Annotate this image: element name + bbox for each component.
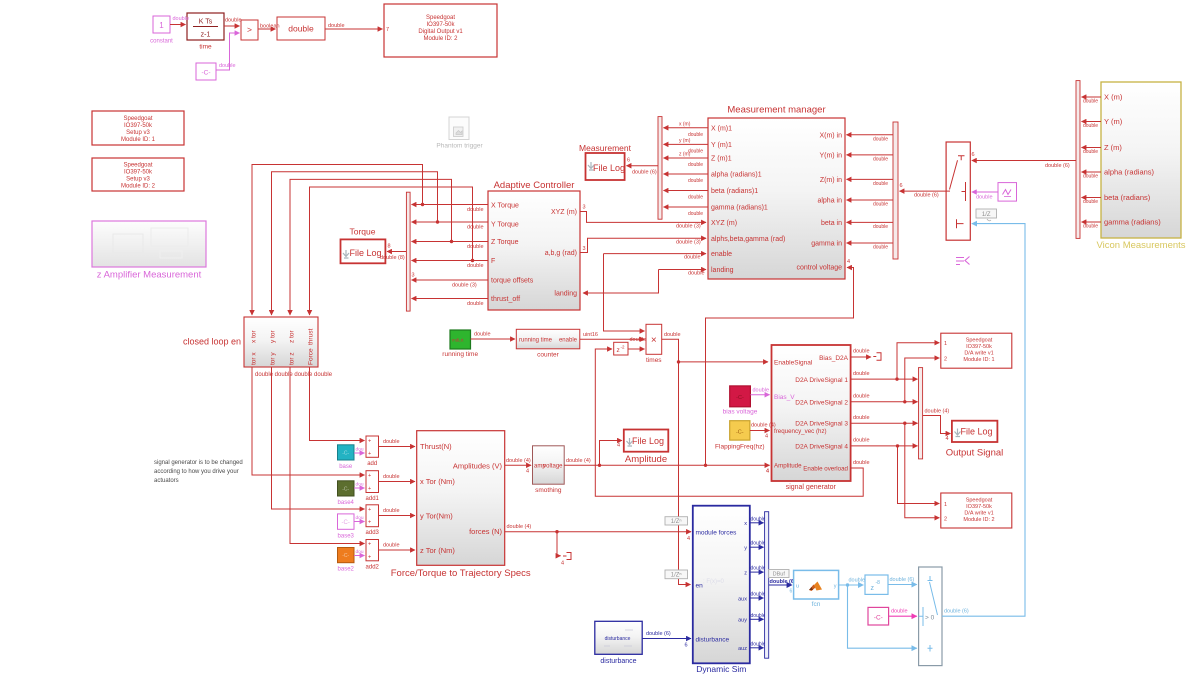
svg-text:add2: add2	[366, 564, 380, 570]
svg-text:z-1: z-1	[201, 32, 211, 39]
svg-text:double: double	[467, 244, 484, 250]
svg-text:double: double	[1083, 174, 1098, 180]
svg-text:z: z	[871, 585, 875, 592]
svg-text:Z(m) in: Z(m) in	[820, 177, 842, 184]
svg-text:control voltage: control voltage	[796, 264, 842, 271]
svg-text:y tor: y tor	[270, 330, 277, 343]
svg-text:double: double	[630, 337, 647, 343]
svg-text:Y(m) in: Y(m) in	[819, 152, 842, 159]
svg-text:auy: auy	[738, 618, 747, 624]
svg-text:frequency_vec (hz): frequency_vec (hz)	[774, 428, 827, 435]
svg-text:+: +	[368, 542, 371, 548]
svg-text:double: double	[1083, 149, 1098, 155]
svg-text:X Torque: X Torque	[491, 203, 519, 210]
svg-text:voltage: voltage	[543, 463, 563, 469]
svg-text:D/A write v1: D/A write v1	[964, 511, 993, 517]
svg-text:double: double	[751, 516, 766, 522]
svg-text:Z (m): Z (m)	[1104, 143, 1122, 152]
svg-text:double: double	[467, 207, 484, 213]
svg-text:double: double	[474, 332, 491, 338]
svg-text:double: double	[873, 202, 888, 208]
svg-text:6: 6	[972, 152, 975, 158]
svg-text:4: 4	[766, 469, 769, 475]
svg-text:double: double	[853, 394, 870, 400]
svg-text:File Log: File Log	[593, 163, 625, 173]
svg-text:double: double	[173, 16, 190, 22]
svg-text:Module ID: 2: Module ID: 2	[963, 517, 994, 523]
svg-text:Amplitudes (V): Amplitudes (V)	[453, 461, 503, 470]
svg-text:double: double	[976, 194, 993, 200]
svg-text:D2A DriveSignal 3: D2A DriveSignal 3	[795, 421, 848, 428]
svg-text:Z Torque: Z Torque	[491, 239, 519, 246]
svg-text:boolean: boolean	[260, 24, 280, 30]
svg-text:Speedgoat: Speedgoat	[123, 163, 152, 169]
svg-text:double: double	[383, 508, 400, 514]
svg-text:Force/Torque to Trajectory Spe: Force/Torque to Trajectory Specs	[391, 568, 531, 579]
svg-text:2: 2	[944, 357, 947, 363]
svg-text:Adaptive Controller: Adaptive Controller	[494, 180, 575, 191]
svg-text:landing: landing	[711, 267, 734, 274]
svg-text:aux: aux	[738, 596, 747, 602]
svg-text:Module ID: 1: Module ID: 1	[963, 357, 994, 363]
svg-text:1/Zⁿ: 1/Zⁿ	[671, 571, 682, 578]
svg-text:dou: dou	[356, 549, 364, 555]
svg-text:XYZ (m): XYZ (m)	[711, 220, 737, 227]
svg-text:File Log: File Log	[960, 427, 992, 437]
svg-text:double: double	[688, 132, 703, 138]
svg-text:double: double	[688, 178, 703, 184]
svg-text:Speedgoat: Speedgoat	[426, 15, 455, 21]
svg-text:Vicon Measurements: Vicon Measurements	[1096, 240, 1185, 251]
svg-text:1: 1	[944, 502, 947, 508]
svg-text:4: 4	[687, 536, 690, 542]
svg-text:-C-: -C-	[201, 70, 210, 77]
svg-text:6: 6	[900, 183, 903, 189]
svg-text:4: 4	[617, 443, 620, 449]
svg-text:double: double	[1083, 224, 1098, 230]
svg-text:3: 3	[583, 246, 586, 252]
svg-text:uint16: uint16	[583, 332, 598, 338]
svg-text:double: double	[328, 23, 345, 29]
svg-text:double: double	[751, 541, 766, 547]
svg-text:double: double	[853, 460, 870, 466]
svg-text:4: 4	[847, 259, 850, 265]
svg-text:Y Torque: Y Torque	[491, 222, 519, 229]
svg-text:disturbance: disturbance	[600, 658, 636, 665]
svg-text:enable: enable	[559, 338, 578, 344]
svg-text:Bias_V: Bias_V	[774, 394, 795, 401]
svg-text:double: double	[873, 245, 888, 251]
svg-text:XYZ (m): XYZ (m)	[551, 209, 577, 216]
svg-text:double: double	[467, 263, 484, 269]
svg-text:counter: counter	[537, 352, 560, 359]
svg-text:double (6): double (6)	[914, 193, 939, 199]
svg-text:-2: -2	[621, 345, 625, 350]
svg-text:double: double	[684, 255, 701, 261]
svg-text:z (m): z (m)	[679, 152, 691, 158]
svg-text:z Tor (Nm): z Tor (Nm)	[420, 546, 455, 555]
svg-text:Force: Force	[308, 348, 315, 365]
svg-text:running time: running time	[442, 351, 478, 358]
svg-text:Speedgoat: Speedgoat	[966, 498, 993, 504]
svg-text:z Amplifier Measurement: z Amplifier Measurement	[97, 270, 202, 281]
svg-text:Y (m): Y (m)	[1104, 117, 1123, 126]
svg-text:X (m): X (m)	[1104, 93, 1123, 102]
svg-text:D/A write v1: D/A write v1	[964, 351, 993, 357]
svg-text:; F(x)=0: ; F(x)=0	[703, 579, 724, 585]
svg-text:double: double	[383, 543, 400, 549]
svg-text:3: 3	[412, 273, 415, 279]
svg-text:alpha in: alpha in	[817, 198, 842, 205]
svg-text:+: +	[368, 486, 371, 492]
svg-text:+: +	[368, 555, 371, 561]
svg-text:Output Signal: Output Signal	[946, 448, 1004, 459]
svg-text:Measurement manager: Measurement manager	[727, 105, 825, 116]
svg-text:dou: dou	[356, 447, 364, 453]
svg-text:double (4): double (4)	[566, 458, 591, 464]
svg-text:thrust_off: thrust_off	[491, 296, 520, 303]
svg-text:fcn: fcn	[812, 601, 821, 608]
svg-text:thrust: thrust	[308, 329, 315, 345]
svg-text:double (4): double (4)	[751, 423, 776, 429]
svg-text:dou: dou	[356, 515, 364, 521]
svg-text:z tor: z tor	[288, 330, 295, 343]
svg-text:double (6): double (6)	[944, 609, 969, 615]
svg-text:gamma (radians): gamma (radians)	[1104, 218, 1161, 227]
svg-text:double: double	[873, 136, 888, 142]
svg-text:4: 4	[765, 434, 768, 440]
svg-text:according to how you drive you: according to how you drive your	[154, 469, 239, 475]
svg-text:-8: -8	[876, 580, 881, 586]
svg-text:enable: enable	[711, 251, 732, 258]
svg-text:double: double	[1083, 199, 1098, 205]
svg-text:gamma in: gamma in	[811, 241, 842, 248]
svg-text:double (6): double (6)	[646, 631, 671, 637]
svg-text:Dynamic Sim: Dynamic Sim	[696, 664, 746, 674]
svg-text:double (4): double (4)	[925, 409, 950, 415]
svg-text:disturbance: disturbance	[605, 636, 631, 642]
svg-text:Module ID: 2: Module ID: 2	[423, 36, 458, 42]
svg-text:double: double	[688, 271, 705, 277]
svg-text:y Tor(Nm): y Tor(Nm)	[420, 512, 453, 521]
svg-text:double (3): double (3)	[452, 283, 477, 289]
svg-text:double (6): double (6)	[770, 579, 796, 585]
svg-text:> 0: > 0	[925, 615, 935, 622]
svg-text:DBuf: DBuf	[773, 571, 786, 577]
svg-text:2: 2	[944, 517, 947, 523]
svg-text:Speedgoat: Speedgoat	[123, 116, 152, 122]
svg-text:disturbance: disturbance	[696, 637, 730, 644]
svg-text:Enable overload: Enable overload	[803, 466, 848, 473]
svg-text:double: double	[688, 162, 703, 168]
svg-text:double: double	[225, 18, 242, 24]
svg-text:D2A DriveSignal 1: D2A DriveSignal 1	[795, 377, 848, 384]
svg-text:landing: landing	[554, 291, 577, 298]
svg-text:y: y	[834, 584, 837, 590]
svg-text:double: double	[853, 415, 870, 421]
svg-text:u: u	[796, 584, 799, 590]
svg-text:x tor: x tor	[250, 330, 257, 343]
svg-text:double: double	[873, 156, 888, 162]
svg-text:IO397-50k: IO397-50k	[966, 344, 992, 350]
svg-text:Measurement: Measurement	[579, 143, 632, 153]
svg-text:Digital Output v1: Digital Output v1	[418, 29, 463, 35]
svg-text:alpha (radians)1: alpha (radians)1	[711, 172, 762, 179]
svg-text:double (8): double (8)	[380, 255, 405, 261]
svg-text:IO397-50k: IO397-50k	[966, 504, 992, 510]
svg-text:base3: base3	[338, 533, 355, 539]
svg-text:double (6): double (6)	[890, 577, 915, 583]
svg-text:-C-: -C-	[342, 486, 349, 492]
svg-text:>: >	[247, 25, 252, 35]
svg-text:y (m): y (m)	[679, 138, 691, 144]
svg-text:7: 7	[386, 27, 389, 33]
svg-text:double: double	[467, 301, 484, 307]
svg-text:-C-: -C-	[342, 450, 349, 456]
svg-text:signal generator: signal generator	[786, 484, 837, 491]
svg-text:IO397-50k: IO397-50k	[124, 123, 153, 129]
svg-text:+: +	[368, 451, 371, 457]
svg-text:1/Z: 1/Z	[982, 212, 991, 218]
svg-text:Setup v3: Setup v3	[126, 130, 150, 136]
svg-text:1: 1	[159, 21, 164, 30]
svg-text:4: 4	[561, 561, 564, 567]
svg-text:File Log: File Log	[632, 436, 664, 446]
svg-text:smothing: smothing	[535, 487, 562, 494]
svg-text:4: 4	[526, 469, 529, 475]
svg-text:closed loop en: closed loop en	[183, 337, 241, 347]
svg-text:a,b,g (rad): a,b,g (rad)	[545, 250, 577, 257]
svg-text:alphs,beta,gamma (rad): alphs,beta,gamma (rad)	[711, 236, 785, 243]
svg-text:+: +	[368, 507, 371, 513]
svg-text:×: ×	[651, 335, 657, 346]
svg-text:+: +	[368, 439, 371, 445]
svg-text:add1: add1	[366, 496, 380, 502]
svg-text:FlappingFreq(hz): FlappingFreq(hz)	[715, 444, 765, 451]
svg-text:D2A DriveSignal 4: D2A DriveSignal 4	[795, 443, 848, 450]
svg-text:double: double	[1083, 99, 1098, 105]
svg-text:gamma (radians)1: gamma (radians)1	[711, 205, 768, 212]
svg-text:double: double	[288, 24, 314, 34]
svg-text:double: double	[688, 211, 703, 217]
svg-text:3: 3	[583, 205, 586, 211]
svg-text:alpha (radians): alpha (radians)	[1104, 168, 1155, 177]
svg-text:Speedgoat: Speedgoat	[966, 338, 993, 344]
svg-text:dou: dou	[356, 482, 364, 488]
svg-text:Thrust(N): Thrust(N)	[420, 442, 452, 451]
svg-text:time: time	[199, 44, 212, 51]
svg-text:6: 6	[790, 589, 793, 595]
svg-text:Z (m)1: Z (m)1	[711, 156, 732, 163]
svg-text:+: +	[368, 520, 371, 526]
svg-text:6: 6	[685, 643, 688, 649]
svg-text:double: double	[853, 438, 870, 444]
svg-text:constant: constant	[150, 39, 173, 45]
svg-text:-C-: -C-	[342, 553, 349, 559]
svg-text:double: double	[873, 181, 888, 187]
svg-text:double: double	[753, 388, 770, 394]
svg-text:double double double double: double double double double	[255, 372, 333, 378]
svg-text:1: 1	[944, 341, 947, 347]
svg-text:IO397-50k: IO397-50k	[426, 22, 455, 28]
svg-text:double: double	[751, 566, 766, 572]
svg-text:Phantom trigger: Phantom trigger	[436, 143, 483, 150]
svg-text:x: x	[744, 521, 747, 527]
svg-text:beta (radians): beta (radians)	[1104, 193, 1151, 202]
svg-text:times: times	[646, 357, 662, 364]
svg-text:double: double	[383, 474, 400, 480]
svg-text:File Log: File Log	[349, 248, 381, 258]
svg-text:base: base	[339, 464, 353, 470]
svg-text:double: double	[1083, 123, 1098, 129]
svg-text:mdLrt: mdLrt	[452, 338, 464, 343]
svg-text:double (4): double (4)	[507, 524, 532, 530]
svg-text:Amplitude: Amplitude	[774, 463, 802, 470]
svg-text:-C-: -C-	[342, 520, 350, 526]
svg-text:double: double	[853, 371, 870, 377]
svg-text:F: F	[491, 258, 495, 265]
svg-text:Module ID: 2: Module ID: 2	[121, 184, 156, 190]
svg-text:running time: running time	[519, 338, 553, 344]
svg-text:double: double	[751, 613, 766, 619]
svg-text:Y (m)1: Y (m)1	[711, 142, 732, 149]
svg-text:double: double	[664, 332, 681, 338]
svg-text:X (m)1: X (m)1	[711, 125, 732, 132]
svg-text:K Ts: K Ts	[199, 19, 213, 26]
svg-text:signal generator is to be chan: signal generator is to be changed	[154, 460, 243, 466]
svg-text:tor z: tor z	[288, 352, 295, 365]
svg-text:double (6): double (6)	[1045, 163, 1070, 169]
svg-text:IO397-50k: IO397-50k	[124, 170, 153, 176]
svg-text:tor y: tor y	[270, 352, 277, 365]
svg-text:Setup v3: Setup v3	[126, 177, 150, 183]
svg-text:double: double	[891, 609, 908, 615]
svg-text:x Tor (Nm): x Tor (Nm)	[420, 477, 455, 486]
svg-text:Amplitude: Amplitude	[625, 454, 667, 465]
svg-text:torque offsets: torque offsets	[491, 278, 534, 285]
svg-text:add3: add3	[366, 530, 380, 536]
svg-text:actuators: actuators	[154, 478, 179, 484]
svg-text:X(m) in: X(m) in	[819, 132, 842, 139]
svg-text:bias voltage: bias voltage	[723, 409, 758, 416]
svg-text:double: double	[688, 194, 703, 200]
svg-text:x (m): x (m)	[679, 121, 691, 127]
svg-text:Module ID: 1: Module ID: 1	[121, 137, 156, 143]
svg-text:6: 6	[627, 158, 630, 164]
svg-text:double: double	[383, 439, 400, 445]
svg-text:4: 4	[946, 436, 949, 442]
svg-text:1/Zⁿ: 1/Zⁿ	[671, 518, 682, 525]
svg-text:z: z	[744, 570, 747, 576]
svg-text:tor x: tor x	[250, 352, 257, 365]
svg-text:double (3): double (3)	[676, 240, 701, 246]
svg-text:Bias_D2A: Bias_D2A	[819, 355, 849, 362]
svg-text:base4: base4	[338, 500, 355, 506]
svg-text:beta (radians)1: beta (radians)1	[711, 188, 758, 195]
svg-text:double: double	[751, 592, 766, 598]
svg-text:EnableSignal: EnableSignal	[774, 360, 813, 367]
svg-text:auz: auz	[738, 646, 747, 652]
svg-text:y: y	[744, 546, 747, 552]
svg-text:base2: base2	[338, 567, 355, 573]
svg-text:double (3): double (3)	[676, 224, 701, 230]
svg-text:module forces: module forces	[696, 529, 738, 536]
svg-text:-C-: -C-	[874, 615, 883, 622]
svg-text:en: en	[696, 582, 704, 589]
svg-text:double: double	[467, 225, 484, 231]
svg-text:beta in: beta in	[821, 220, 842, 227]
svg-text:Torque: Torque	[350, 227, 376, 237]
svg-text:forces (N): forces (N)	[469, 527, 502, 536]
svg-text:double: double	[751, 641, 766, 647]
svg-text:double: double	[219, 63, 236, 69]
svg-text:D2A DriveSignal 2: D2A DriveSignal 2	[795, 399, 848, 406]
svg-text:double (6): double (6)	[632, 170, 657, 176]
svg-text:add: add	[367, 461, 377, 467]
svg-text:-C-: -C-	[736, 430, 744, 436]
svg-text:double (4): double (4)	[506, 458, 531, 464]
svg-text:double: double	[873, 224, 888, 230]
svg-text:8: 8	[388, 244, 391, 250]
svg-text:double: double	[853, 349, 870, 355]
svg-text:-C-: -C-	[736, 395, 744, 401]
svg-text:z: z	[617, 347, 620, 354]
svg-text:+: +	[368, 473, 371, 479]
